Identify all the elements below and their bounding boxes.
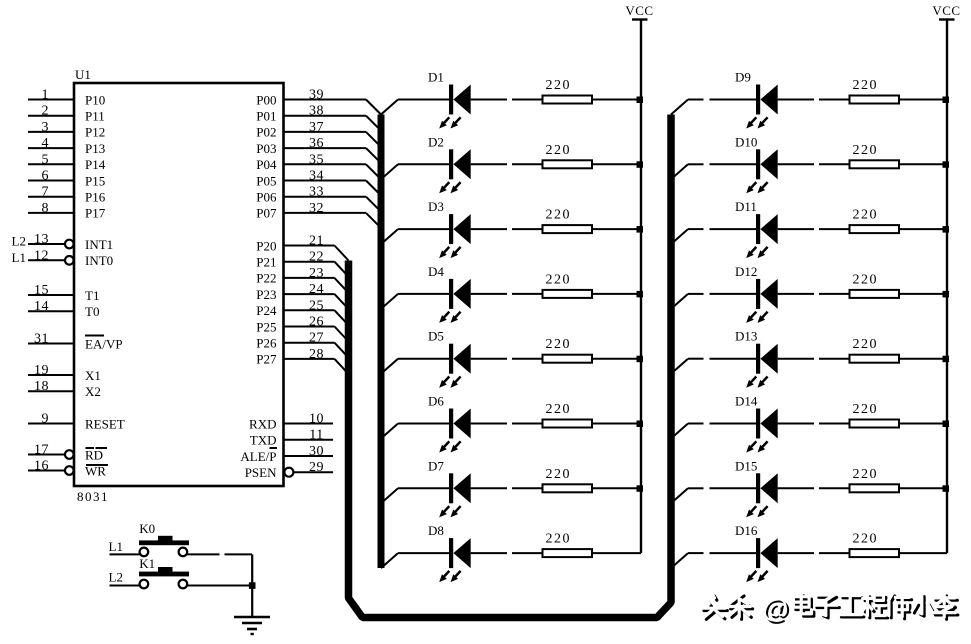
svg-text:P04: P04 <box>256 157 277 172</box>
resistor R9 220 ohm <box>850 78 900 104</box>
wire bus stub to D1 <box>381 100 449 115</box>
svg-text:38: 38 <box>309 104 324 119</box>
svg-text:D13: D13 <box>735 329 757 344</box>
resistor R1 220 ohm <box>543 78 593 104</box>
svg-text:VCC: VCC <box>625 3 653 18</box>
power symbol VCC (bank 1) <box>625 3 653 20</box>
svg-text:D15: D15 <box>735 458 757 473</box>
U1 pin 25 (P24) wire to P2 bus <box>256 298 348 325</box>
svg-text:24: 24 <box>309 282 324 297</box>
wire resistor R10 to VCC rail <box>899 163 947 165</box>
wire D16 to resistor <box>778 552 850 554</box>
wire bus stub to D12 <box>671 294 756 309</box>
LED D11 <box>735 199 778 258</box>
U1 pin 19 (X1) wire and labels <box>28 363 101 383</box>
U1 pin 23 (P22) wire to P2 bus <box>256 266 348 293</box>
wire L2 to K1 <box>110 585 140 587</box>
U1 pin 2 (P11) wire and labels <box>28 104 105 124</box>
svg-text:26: 26 <box>309 315 324 330</box>
svg-text:220: 220 <box>546 272 572 287</box>
net label L2 at switch K1 <box>109 569 123 584</box>
wire resistor R1 to VCC rail <box>592 99 641 101</box>
LED D1 <box>428 70 471 129</box>
U1 pin 1 (P10) wire and labels <box>28 88 105 108</box>
P0 port bus (thick) <box>378 115 385 569</box>
svg-text:28: 28 <box>309 347 324 362</box>
pushbutton switch K1 <box>139 556 189 588</box>
U1 pin 36 (P03) wire to P0 bus <box>256 136 381 163</box>
svg-text:RESET: RESET <box>85 416 125 431</box>
svg-text:220: 220 <box>546 402 572 417</box>
U1 pin 15 (T1) wire and labels <box>28 283 99 303</box>
svg-text:L2: L2 <box>109 569 123 584</box>
svg-text:220: 220 <box>853 532 879 547</box>
svg-text:37: 37 <box>309 120 324 135</box>
svg-text:P15: P15 <box>85 173 105 188</box>
LED D9 <box>735 70 778 129</box>
svg-text:4: 4 <box>42 136 50 151</box>
wire D15 to resistor <box>778 487 850 489</box>
svg-text:15: 15 <box>34 283 49 298</box>
svg-text:7: 7 <box>42 185 50 200</box>
wire D4 to resistor <box>471 293 543 295</box>
U1 pin 8 (P17) wire and labels <box>28 201 106 221</box>
svg-text:220: 220 <box>853 337 879 352</box>
net label L1 on INT0 <box>12 250 26 265</box>
junction node R5/VCC rail <box>637 356 644 363</box>
svg-text:30: 30 <box>309 444 324 459</box>
wire resistor R16 to VCC rail <box>899 552 947 554</box>
svg-text:P06: P06 <box>256 190 277 205</box>
wire VCC rail 2 <box>946 20 948 554</box>
junction node R13/VCC rail <box>943 356 950 363</box>
svg-text:P21: P21 <box>256 255 276 270</box>
resistor R8 220 ohm <box>543 532 593 558</box>
svg-text:D12: D12 <box>735 264 757 279</box>
wire resistor R5 to VCC rail <box>592 358 641 360</box>
svg-text:P16: P16 <box>85 190 106 205</box>
svg-text:D8: D8 <box>428 523 444 538</box>
svg-text:8031: 8031 <box>77 489 109 504</box>
LED D6 <box>428 394 471 453</box>
U1 pin 32 (P07) wire to P0 bus <box>256 201 381 228</box>
U1 pin 22 (P21) wire to P2 bus <box>256 250 348 277</box>
wire resistor R7 to VCC rail <box>592 487 641 489</box>
wire bus stub to D3 <box>381 229 449 244</box>
wire bus stub to D5 <box>381 359 449 374</box>
resistor R10 220 ohm <box>850 143 900 169</box>
svg-text:P13: P13 <box>85 141 105 156</box>
U1 pin 6 (P15) wire and labels <box>28 169 105 189</box>
U1 pin 12 (INT0) wire and labels <box>28 248 113 268</box>
LED D12 <box>735 264 778 323</box>
svg-text:10: 10 <box>309 412 324 427</box>
resistor R7 220 ohm <box>543 467 593 493</box>
svg-text:P11: P11 <box>85 109 105 124</box>
U1 pin 34 (P05) wire to P0 bus <box>256 169 381 196</box>
svg-text:U1: U1 <box>75 67 91 82</box>
svg-text:18: 18 <box>34 379 49 394</box>
svg-text:X2: X2 <box>85 384 101 399</box>
wire bus stub to D13 <box>671 359 756 374</box>
svg-text:P26: P26 <box>256 336 277 351</box>
svg-text:P24: P24 <box>256 303 277 318</box>
svg-text:220: 220 <box>853 78 879 93</box>
wire resistor R11 to VCC rail <box>899 228 947 230</box>
junction node R7/VCC rail <box>637 485 644 492</box>
U1 pin 21 (P20) wire to P2 bus <box>256 234 348 261</box>
svg-text:16: 16 <box>34 459 49 474</box>
svg-text:K1: K1 <box>139 556 155 571</box>
U1 pin 16 (WR) wire and labels <box>28 459 106 479</box>
svg-text:22: 22 <box>309 250 324 265</box>
svg-text:PSEN: PSEN <box>245 465 277 480</box>
wire D9 to resistor <box>778 99 850 101</box>
wire D6 to resistor <box>471 423 543 425</box>
svg-text:D4: D4 <box>428 264 444 279</box>
svg-text:3: 3 <box>42 120 50 135</box>
wire D14 to resistor <box>778 423 850 425</box>
svg-text:34: 34 <box>309 169 324 184</box>
ground symbol <box>234 617 270 634</box>
svg-text:P02: P02 <box>256 125 276 140</box>
svg-text:P17: P17 <box>85 206 106 221</box>
U1 pin 28 (P27) wire to P2 bus <box>256 347 348 374</box>
svg-text:INT1: INT1 <box>85 237 113 252</box>
U1 pin 39 (P00) wire to P0 bus <box>256 88 381 115</box>
wire D1 to resistor <box>471 99 543 101</box>
U1 pin 37 (P02) wire to P0 bus <box>256 120 381 147</box>
LED D14 <box>735 394 778 453</box>
svg-text:5: 5 <box>42 152 50 167</box>
U1 pin 31 (EA/VP) wire and labels <box>28 332 123 352</box>
U1 pin 18 (X2) wire and labels <box>28 379 101 399</box>
svg-text:L1: L1 <box>109 539 123 554</box>
wire resistor R2 to VCC rail <box>592 163 641 165</box>
svg-text:T1: T1 <box>85 288 99 303</box>
U1 pin 14 (T0) wire and labels <box>28 299 99 319</box>
svg-text:8: 8 <box>42 201 50 216</box>
svg-text:39: 39 <box>309 88 324 103</box>
svg-text:1: 1 <box>42 88 50 103</box>
LED D10 <box>735 134 778 193</box>
svg-text:P10: P10 <box>85 92 105 107</box>
net label L1 at switch K0 <box>109 539 123 554</box>
junction node R6/VCC rail <box>637 421 644 428</box>
svg-text:27: 27 <box>309 331 324 346</box>
overline for EA on U1 pin 31 <box>85 335 104 337</box>
resistor R13 220 ohm <box>850 337 900 363</box>
junction node R2/VCC rail <box>637 161 644 168</box>
svg-text:L2: L2 <box>12 234 26 249</box>
svg-text:23: 23 <box>309 266 324 281</box>
svg-text:P01: P01 <box>256 109 276 124</box>
wire ground stem vertical <box>251 554 253 616</box>
overline for WR on U1 pin 16 <box>86 464 108 466</box>
svg-text:9: 9 <box>42 412 50 427</box>
U1 pin 7 (P16) wire and labels <box>28 185 106 205</box>
svg-text:29: 29 <box>309 460 324 475</box>
svg-text:D5: D5 <box>428 329 444 344</box>
svg-text:D1: D1 <box>428 70 444 85</box>
svg-text:13: 13 <box>34 232 49 247</box>
LED D16 <box>735 523 778 582</box>
junction node K1 wire / ground stem <box>249 582 256 589</box>
svg-text:VCC: VCC <box>932 3 960 18</box>
wire resistor R8 to VCC rail <box>592 552 641 554</box>
svg-text:X1: X1 <box>85 368 101 383</box>
P2 port bus (thick, routed under bottom) <box>349 115 672 618</box>
resistor R4 220 ohm <box>543 272 593 298</box>
junction node R12/VCC rail <box>943 291 950 298</box>
svg-text:35: 35 <box>309 152 324 167</box>
wire D11 to resistor <box>778 228 850 230</box>
svg-text:D3: D3 <box>428 199 444 214</box>
wire D13 to resistor <box>778 358 850 360</box>
svg-text:EA/VP: EA/VP <box>85 336 123 351</box>
wire D5 to resistor <box>471 358 543 360</box>
wire D2 to resistor <box>471 163 543 165</box>
junction node R4/VCC rail <box>637 291 644 298</box>
wire bus stub to D7 <box>381 488 449 503</box>
svg-text:D7: D7 <box>428 458 444 473</box>
power symbol VCC (bank 2) <box>932 3 960 20</box>
wire bus stub to D15 <box>671 488 756 503</box>
wire bus stub to D8 <box>381 553 449 568</box>
U1 pin 35 (P04) wire to P0 bus <box>256 152 381 179</box>
svg-text:P14: P14 <box>85 157 106 172</box>
resistor R11 220 ohm <box>850 208 900 234</box>
svg-text:11: 11 <box>309 428 323 443</box>
resistor R3 220 ohm <box>543 208 593 234</box>
wire bus stub to D10 <box>671 164 756 179</box>
svg-text:12: 12 <box>34 248 49 263</box>
svg-text:220: 220 <box>853 143 879 158</box>
wire VCC rail 1 <box>640 20 642 554</box>
svg-text:220: 220 <box>546 467 572 482</box>
U1 pin 10 (RXD) wire <box>249 412 333 432</box>
resistor R15 220 ohm <box>850 467 900 493</box>
svg-text:D6: D6 <box>428 394 444 409</box>
junction node R11/VCC rail <box>943 226 950 233</box>
svg-text:220: 220 <box>546 337 572 352</box>
svg-text:P03: P03 <box>256 141 276 156</box>
overline for P in ALE/P on U1 pin 30 <box>270 447 278 449</box>
wire resistor R13 to VCC rail <box>899 358 947 360</box>
svg-text:P27: P27 <box>256 352 277 367</box>
junction node R1/VCC rail <box>637 97 644 104</box>
svg-text:220: 220 <box>853 272 879 287</box>
U1 pin 24 (P23) wire to P2 bus <box>256 282 348 309</box>
junction node R14/VCC rail <box>943 421 950 428</box>
junction node R15/VCC rail <box>943 485 950 492</box>
resistor R12 220 ohm <box>850 272 900 298</box>
wire resistor R14 to VCC rail <box>899 423 947 425</box>
svg-text:220: 220 <box>546 532 572 547</box>
LED D8 <box>428 523 471 582</box>
LED D13 <box>735 329 778 388</box>
overlines for RD on U1 pin 17 <box>86 447 108 449</box>
U1 pin 9 (RESET) wire and labels <box>28 412 125 432</box>
svg-text:INT0: INT0 <box>85 253 113 268</box>
svg-text:33: 33 <box>309 185 324 200</box>
svg-text:220: 220 <box>853 208 879 223</box>
svg-text:D11: D11 <box>735 199 757 214</box>
U1 pin 17 (RD) wire and labels <box>28 443 103 463</box>
svg-text:@: @ <box>762 593 788 623</box>
wire resistor R6 to VCC rail <box>592 423 641 425</box>
wire bus stub to D2 <box>381 164 449 179</box>
wire resistor R12 to VCC rail <box>899 293 947 295</box>
U1 pin 30 (ALE/P) wire <box>240 444 333 464</box>
svg-text:17: 17 <box>34 443 49 458</box>
wire D8 to resistor <box>471 552 543 554</box>
svg-text:RD: RD <box>85 447 103 462</box>
LED D2 <box>428 134 471 193</box>
resistor R6 220 ohm <box>543 402 593 428</box>
resistor R5 220 ohm <box>543 337 593 363</box>
svg-text:36: 36 <box>309 136 324 151</box>
resistor R2 220 ohm <box>543 143 593 169</box>
U1 pin 38 (P01) wire to P0 bus <box>256 104 381 131</box>
U1 pin 13 (INT1) wire and labels <box>28 232 113 252</box>
wire K1 to ground stem <box>187 585 252 587</box>
wire resistor R4 to VCC rail <box>592 293 641 295</box>
junction node R10/VCC rail <box>943 161 950 168</box>
wire bus stub to D16 <box>671 553 756 568</box>
svg-text:P00: P00 <box>256 92 276 107</box>
svg-text:220: 220 <box>546 78 572 93</box>
LED D15 <box>735 458 778 517</box>
U1 pin 3 (P12) wire and labels <box>28 120 105 140</box>
svg-text:2: 2 <box>42 104 50 119</box>
svg-text:P05: P05 <box>256 173 276 188</box>
svg-text:D10: D10 <box>735 134 757 149</box>
svg-text:220: 220 <box>546 143 572 158</box>
svg-text:P23: P23 <box>256 287 276 302</box>
wire bus stub to D4 <box>381 294 449 309</box>
net label L2 on INT1 <box>12 234 26 249</box>
LED D4 <box>428 264 471 323</box>
LED D7 <box>428 458 471 517</box>
U1 pin 29 (PSEN) wire <box>245 460 333 480</box>
svg-text:P12: P12 <box>85 125 105 140</box>
junction node R3/VCC rail <box>637 226 644 233</box>
U1 pin 11 (TXD) wire <box>250 428 333 448</box>
wire K0 to ground stem <box>187 553 252 555</box>
svg-text:RXD: RXD <box>249 416 276 431</box>
svg-text:220: 220 <box>853 467 879 482</box>
U1 pin 4 (P13) wire and labels <box>28 136 105 156</box>
pushbutton switch K0 <box>139 521 189 556</box>
svg-text:K0: K0 <box>139 521 155 536</box>
svg-text:P07: P07 <box>256 206 277 221</box>
svg-text:D2: D2 <box>428 134 444 149</box>
svg-text:P22: P22 <box>256 271 276 286</box>
svg-text:14: 14 <box>34 299 49 314</box>
U1 pin 27 (P26) wire to P2 bus <box>256 331 348 358</box>
svg-text:P25: P25 <box>256 319 276 334</box>
svg-text:220: 220 <box>546 208 572 223</box>
wire bus stub to D11 <box>671 229 756 244</box>
wire resistor R9 to VCC rail <box>899 99 947 101</box>
op IC U1 8031 microcontroller body <box>74 67 284 504</box>
resistor R14 220 ohm <box>850 402 900 428</box>
svg-text:6: 6 <box>42 169 50 184</box>
wire bus stub to D6 <box>381 424 449 439</box>
svg-text:L1: L1 <box>12 250 26 265</box>
watermark text 头条 @电子工程师小李 (hand-drawn strokes) <box>702 593 958 625</box>
wire D12 to resistor <box>778 293 850 295</box>
U1 pin 5 (P14) wire and labels <box>28 152 106 172</box>
svg-text:D9: D9 <box>735 70 751 85</box>
resistor R16 220 ohm <box>850 532 900 558</box>
svg-text:31: 31 <box>34 332 49 347</box>
junction node R9/VCC rail <box>943 97 950 104</box>
wire L1 to K0 <box>110 553 140 555</box>
U1 pin 26 (P25) wire to P2 bus <box>256 315 348 342</box>
svg-text:TXD: TXD <box>250 433 277 448</box>
wire bus stub to D14 <box>671 424 756 439</box>
svg-text:220: 220 <box>853 402 879 417</box>
LED D3 <box>428 199 471 258</box>
svg-text:32: 32 <box>309 201 324 216</box>
wire D7 to resistor <box>471 487 543 489</box>
wire resistor R15 to VCC rail <box>899 487 947 489</box>
svg-text:ALE/P: ALE/P <box>240 449 276 464</box>
svg-text:D16: D16 <box>735 523 758 538</box>
U1 pin 33 (P06) wire to P0 bus <box>256 185 381 212</box>
svg-text:21: 21 <box>309 234 324 249</box>
wire D3 to resistor <box>471 228 543 230</box>
wire resistor R3 to VCC rail <box>592 228 641 230</box>
svg-text:P20: P20 <box>256 238 276 253</box>
LED D5 <box>428 329 471 388</box>
wire D10 to resistor <box>778 163 850 165</box>
svg-text:T0: T0 <box>85 304 99 319</box>
wire bus stub to D9 <box>671 100 756 115</box>
svg-text:25: 25 <box>309 298 324 313</box>
svg-text:D14: D14 <box>735 394 758 409</box>
svg-text:19: 19 <box>34 363 49 378</box>
